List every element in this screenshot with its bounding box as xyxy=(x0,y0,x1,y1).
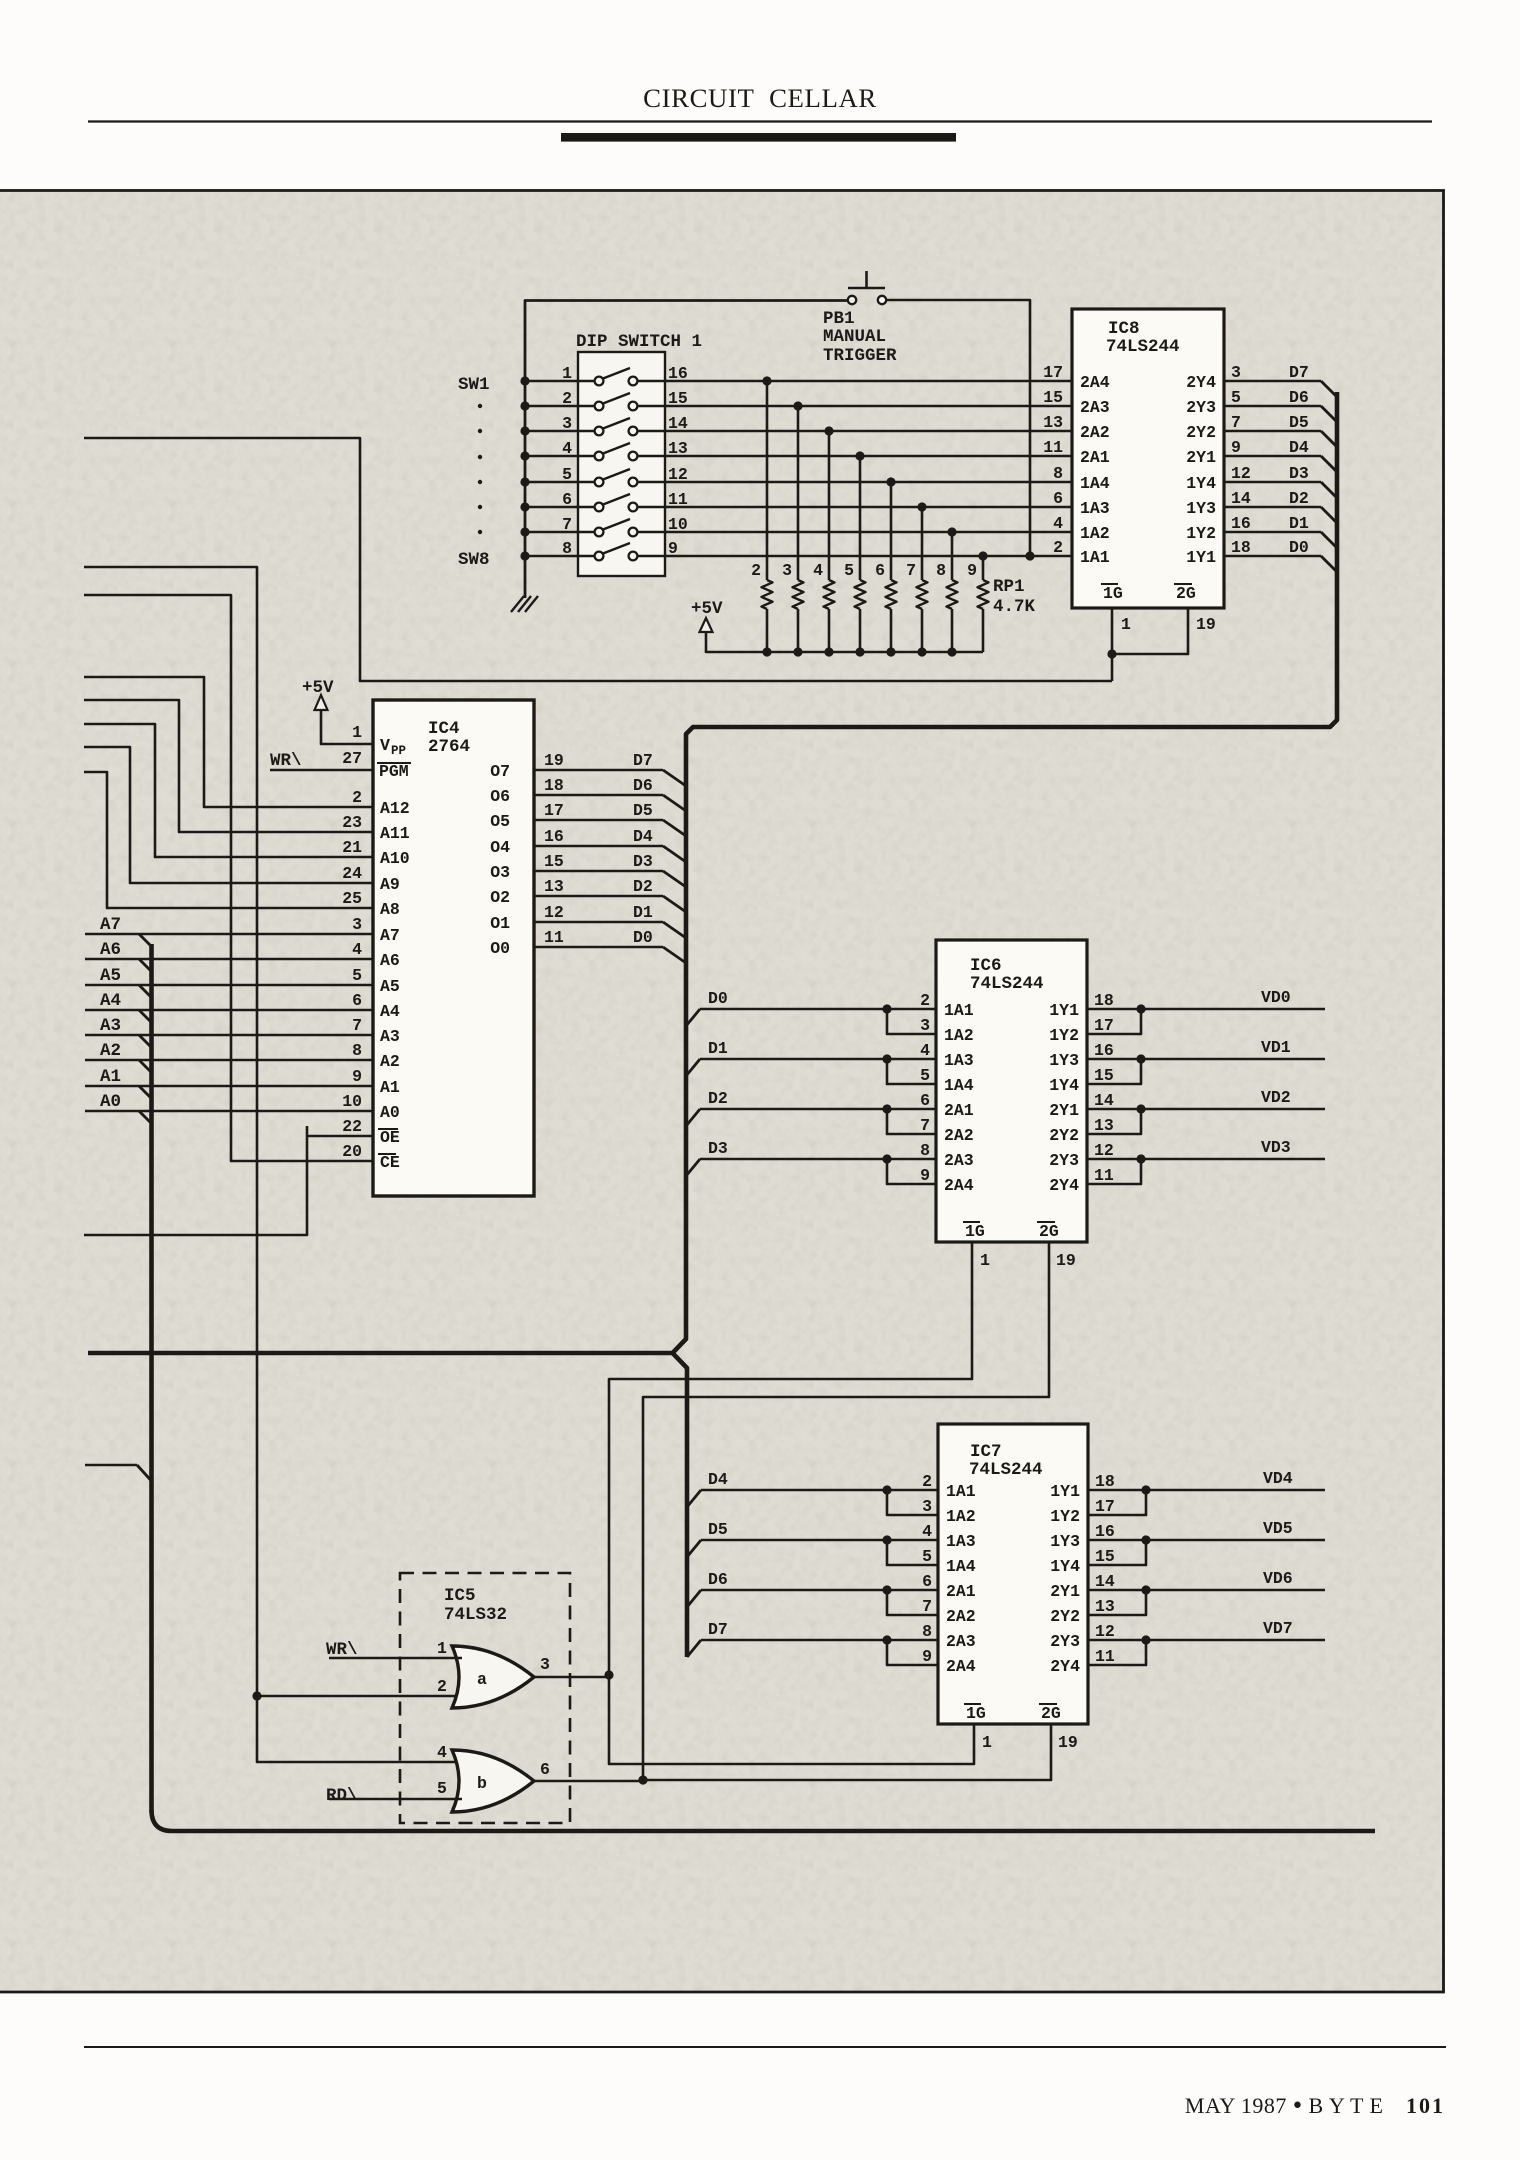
svg-text:VD5: VD5 xyxy=(1263,1519,1293,1538)
svg-text:4: 4 xyxy=(922,1522,932,1541)
label WR\ (IC5a input) xyxy=(326,1640,358,1660)
svg-text:9: 9 xyxy=(967,561,977,580)
svg-text:8: 8 xyxy=(922,1622,932,1641)
IC4 pin 24 number xyxy=(342,864,362,883)
svg-text:10: 10 xyxy=(668,515,688,534)
svg-text:1G: 1G xyxy=(966,1704,986,1723)
svg-text:PP: PP xyxy=(391,744,406,758)
svg-text:6: 6 xyxy=(352,991,362,1010)
svg-text:9: 9 xyxy=(1231,438,1241,457)
svg-text:7: 7 xyxy=(906,561,916,580)
svg-text:11: 11 xyxy=(1095,1647,1115,1666)
IC6 pin 12 label (2Y3) xyxy=(1049,1141,1114,1170)
RP1 pin number 4 xyxy=(813,561,823,580)
svg-text:17: 17 xyxy=(1094,1016,1114,1035)
IC6 pin 17 label (1Y2) xyxy=(1049,1016,1114,1045)
IC8 1G 2G labels xyxy=(1101,584,1196,603)
svg-text:2G: 2G xyxy=(1039,1222,1059,1241)
wire IC5a output xyxy=(534,1676,609,1679)
wire A8 from left edge xyxy=(84,772,373,908)
wire CE route (left edge down to pin 20) xyxy=(84,595,373,1161)
label D2 (IC6 input) xyxy=(708,1089,728,1108)
resistor RP1 pin 6 xyxy=(886,477,897,652)
IC7 pin 15 label (1Y4) xyxy=(1050,1547,1115,1576)
power +5V (RP1) xyxy=(691,599,723,653)
IC4 A6 label xyxy=(380,951,400,970)
svg-text:7: 7 xyxy=(1231,413,1241,432)
switch SW7 (row wire, contacts, arm) xyxy=(520,519,1072,537)
svg-text:O2: O2 xyxy=(490,888,510,907)
IC8 pin 12 (1Y4) and wire to D bus xyxy=(1186,464,1337,498)
svg-text:2Y3: 2Y3 xyxy=(1050,1632,1080,1651)
svg-text:VD0: VD0 xyxy=(1261,988,1291,1007)
label D0 (IC4 output) xyxy=(633,928,653,947)
svg-text:A1: A1 xyxy=(100,1067,121,1087)
label VD7 xyxy=(1263,1619,1293,1638)
svg-text:2A2: 2A2 xyxy=(944,1126,974,1145)
svg-text:13: 13 xyxy=(1043,413,1063,432)
svg-text:VD4: VD4 xyxy=(1263,1469,1293,1488)
wire VD1 from IC6 xyxy=(1087,1054,1325,1084)
svg-text:D7: D7 xyxy=(708,1620,728,1639)
DIP pin 16 (right) xyxy=(668,364,688,383)
wire A12 from left edge xyxy=(84,677,373,807)
svg-text:WR\: WR\ xyxy=(270,751,302,771)
svg-text:IC5: IC5 xyxy=(444,1586,476,1606)
resistor RP1 pin 7 xyxy=(917,502,928,652)
svg-text:2A4: 2A4 xyxy=(946,1657,976,1676)
IC8 pin 4 label (1A2) xyxy=(1053,514,1110,543)
svg-text:1Y4: 1Y4 xyxy=(1186,474,1216,493)
svg-text:2Y2: 2Y2 xyxy=(1050,1607,1080,1626)
IC7 pin 9 label (2A4) xyxy=(922,1647,976,1676)
svg-text:A5: A5 xyxy=(380,977,400,996)
wire D5 branch to IC7 xyxy=(687,1535,938,1565)
svg-text:CIRCUIT CELLAR: CIRCUIT CELLAR xyxy=(643,83,877,113)
svg-text:13: 13 xyxy=(1095,1597,1115,1616)
svg-text:16: 16 xyxy=(1231,514,1251,533)
svg-text:4: 4 xyxy=(437,1743,447,1762)
svg-text:A2: A2 xyxy=(380,1052,400,1071)
svg-text:11: 11 xyxy=(1094,1166,1114,1185)
label PB1 MANUAL TRIGGER xyxy=(823,309,897,366)
power +5V (IC4 Vpp) xyxy=(302,678,373,744)
svg-text:2Y3: 2Y3 xyxy=(1186,398,1216,417)
svg-text:1Y4: 1Y4 xyxy=(1049,1076,1079,1095)
IC4 pin 11 (O0) output wire xyxy=(490,928,686,963)
svg-text:1Y1: 1Y1 xyxy=(1049,1001,1079,1020)
RP1 pin number 3 xyxy=(782,561,792,580)
IC4 pin 23 number xyxy=(342,813,362,832)
IC8 pin 7 (2Y2) and wire to D bus xyxy=(1186,413,1337,447)
svg-text:8: 8 xyxy=(562,539,572,558)
svg-text:1: 1 xyxy=(980,1251,990,1270)
svg-text:1A1: 1A1 xyxy=(1080,548,1110,567)
IC7 pin 17 label (1Y2) xyxy=(1050,1497,1115,1526)
svg-text:V: V xyxy=(380,736,390,755)
svg-text:D3: D3 xyxy=(633,852,653,871)
IC7 pin 3 label (1A2) xyxy=(922,1497,976,1526)
svg-text:12: 12 xyxy=(1095,1622,1115,1641)
wire D7 branch to IC7 xyxy=(687,1635,938,1665)
svg-text:TRIGGER: TRIGGER xyxy=(823,346,897,366)
svg-text:3: 3 xyxy=(352,915,362,934)
svg-text:2A2: 2A2 xyxy=(946,1607,976,1626)
IC8 pin 17 label (2A4) xyxy=(1043,363,1110,392)
switch SW5 (row wire, contacts, arm) xyxy=(520,469,1072,487)
switch SW6 (row wire, contacts, arm) xyxy=(520,494,1072,512)
svg-text:O5: O5 xyxy=(490,812,510,831)
svg-text:DIP SWITCH 1: DIP SWITCH 1 xyxy=(576,332,702,352)
label D7 (IC7 input) xyxy=(708,1620,728,1639)
switch SW2 (row wire, contacts, arm) xyxy=(520,393,1072,411)
wire VD7 from IC7 xyxy=(1088,1635,1325,1665)
svg-text:19: 19 xyxy=(1056,1251,1076,1270)
IC4 pin 7 number xyxy=(352,1016,362,1035)
svg-text:3: 3 xyxy=(540,1655,550,1674)
label IC5 74LS32 xyxy=(444,1586,507,1625)
svg-text:2Y4: 2Y4 xyxy=(1049,1176,1079,1195)
svg-text:17: 17 xyxy=(1095,1497,1115,1516)
label D1 (IC6 input) xyxy=(708,1039,728,1058)
schematic panel border xyxy=(0,191,1444,1993)
IC4 pin 18 (O6) output wire xyxy=(490,776,686,811)
svg-text:17: 17 xyxy=(544,801,564,820)
svg-text:3: 3 xyxy=(782,561,792,580)
svg-text:D1: D1 xyxy=(1289,514,1309,533)
svg-text:VD1: VD1 xyxy=(1261,1038,1291,1057)
IC7 pin 4 label (1A3) xyxy=(922,1522,976,1551)
svg-text:O3: O3 xyxy=(490,863,510,882)
footer rule xyxy=(84,2046,1446,2048)
IC4 pin 5 number xyxy=(352,966,362,985)
svg-text:14: 14 xyxy=(1095,1572,1115,1591)
svg-text:7: 7 xyxy=(562,515,572,534)
wire A0 from left edge to IC4 xyxy=(85,1092,373,1124)
label D4 (IC4 output) xyxy=(633,827,653,846)
IC6 pin 13 label (2Y2) xyxy=(1049,1116,1114,1145)
resistor RP1 pin 8 xyxy=(947,527,958,652)
resistor RP1 pin 2 xyxy=(762,376,773,652)
wire VD6 from IC7 xyxy=(1088,1585,1325,1615)
IC6 pin 4 label (1A3) xyxy=(920,1041,974,1070)
IC7 pin 18 label (1Y1) xyxy=(1050,1472,1115,1501)
svg-text:A6: A6 xyxy=(380,951,400,970)
wire A5 from left edge to IC4 xyxy=(85,966,373,998)
svg-text:1Y2: 1Y2 xyxy=(1050,1507,1080,1526)
switch SW1 (row wire, contacts, arm) xyxy=(520,368,1072,386)
IC4 pin 19 (O7) output wire xyxy=(490,751,686,786)
wire A10 from left edge xyxy=(84,724,373,857)
svg-text:21: 21 xyxy=(342,838,362,857)
svg-text:D2: D2 xyxy=(708,1089,728,1108)
svg-text:2Y3: 2Y3 xyxy=(1049,1151,1079,1170)
svg-text:D7: D7 xyxy=(1289,363,1309,382)
wire IC7 1G to OR-a output xyxy=(604,1670,974,1764)
DIP pin 15 (right) xyxy=(668,389,688,408)
IC4 pin 27 number xyxy=(342,749,362,768)
svg-text:1Y4: 1Y4 xyxy=(1050,1557,1080,1576)
svg-text:16: 16 xyxy=(544,827,564,846)
svg-text:74LS244: 74LS244 xyxy=(969,1460,1043,1480)
svg-text:2A4: 2A4 xyxy=(1080,373,1110,392)
wire PB1 left to SW bus xyxy=(850,300,854,302)
IC4 pin 22 number xyxy=(342,1117,362,1136)
IC8 pin 6 label (1A3) xyxy=(1053,489,1110,518)
label D6 (IC7 input) xyxy=(708,1570,728,1589)
label D2 (IC4 output) xyxy=(633,877,653,896)
label D1 (IC8 output) xyxy=(1289,514,1309,533)
wire D6 branch to IC7 xyxy=(687,1585,938,1615)
label D5 (IC4 output) xyxy=(633,801,653,820)
DIP pin 4 (left) xyxy=(562,439,572,458)
label IC4 2764 xyxy=(428,719,470,757)
svg-text:D5: D5 xyxy=(708,1520,728,1539)
label D7 (IC8 output) xyxy=(1289,363,1309,382)
switch SW4 (row wire, contacts, arm) xyxy=(520,443,1072,461)
IC8 pin 13 label (2A2) xyxy=(1043,413,1110,442)
label WR\ (PGM net) xyxy=(270,751,302,771)
IC8 pin 2 label (1A1) xyxy=(1053,538,1110,567)
svg-text:O1: O1 xyxy=(490,914,510,933)
svg-text:15: 15 xyxy=(1095,1547,1115,1566)
IC6 pin 3 label (1A2) xyxy=(920,1016,974,1045)
label D7 (IC4 output) xyxy=(633,751,653,770)
svg-text:5: 5 xyxy=(922,1547,932,1566)
svg-text:1Y1: 1Y1 xyxy=(1186,548,1216,567)
wire VD3 from IC6 xyxy=(1087,1154,1325,1184)
IC4 A1 label xyxy=(380,1078,400,1097)
IC6 pin 2 label (1A1) xyxy=(920,991,974,1020)
svg-text:D4: D4 xyxy=(708,1470,728,1489)
IC6 pin 16 label (1Y3) xyxy=(1049,1041,1114,1070)
IC8 pin 14 (1Y3) and wire to D bus xyxy=(1186,489,1337,523)
svg-text:O6: O6 xyxy=(490,787,510,806)
wire A7 from left edge to IC4 xyxy=(85,915,373,947)
svg-text:A0: A0 xyxy=(380,1103,400,1122)
svg-text:18: 18 xyxy=(1094,991,1114,1010)
svg-text:23: 23 xyxy=(342,813,362,832)
svg-text:MANUAL: MANUAL xyxy=(823,327,886,347)
svg-text:D7: D7 xyxy=(633,751,653,770)
wire IC5b output xyxy=(534,1780,643,1783)
IC4 pin 10 number xyxy=(342,1092,362,1111)
label D0 (IC6 input) xyxy=(708,989,728,1008)
svg-text:7: 7 xyxy=(352,1016,362,1035)
svg-text:O0: O0 xyxy=(490,939,510,958)
svg-text:D2: D2 xyxy=(1289,489,1309,508)
DIP pin 11 (right) xyxy=(668,490,688,509)
svg-text:6: 6 xyxy=(562,490,572,509)
svg-text:2: 2 xyxy=(562,389,572,408)
svg-text:9: 9 xyxy=(668,539,678,558)
label IC6 74LS244 xyxy=(970,956,1044,994)
svg-text:A9: A9 xyxy=(380,875,400,894)
svg-text:2Y1: 2Y1 xyxy=(1049,1101,1079,1120)
svg-text:SW8: SW8 xyxy=(458,550,490,570)
svg-text:6: 6 xyxy=(540,1760,550,1779)
svg-text:5: 5 xyxy=(562,465,572,484)
IC4 pin 12 (O1) output wire xyxy=(490,903,686,938)
svg-text:2Y2: 2Y2 xyxy=(1186,423,1216,442)
svg-text:PGM: PGM xyxy=(379,762,409,781)
svg-text:D4: D4 xyxy=(633,827,653,846)
wire OE route (left edge up to pin 22) xyxy=(84,1126,373,1235)
IC4 A5 label xyxy=(380,977,400,996)
svg-text:18: 18 xyxy=(1231,538,1251,557)
IC4 A9 label xyxy=(380,875,400,894)
svg-text:2A1: 2A1 xyxy=(1080,448,1110,467)
svg-text:19: 19 xyxy=(1196,615,1216,634)
label D3 (IC4 output) xyxy=(633,852,653,871)
IC4 pin 3 number xyxy=(352,915,362,934)
IC8 pin 3 (2Y4) and wire to D bus xyxy=(1186,363,1337,397)
svg-text:A0: A0 xyxy=(100,1092,121,1112)
IC8 pin 8 label (1A4) xyxy=(1053,464,1110,493)
IC8 74LS244 box xyxy=(1072,309,1224,608)
svg-text:11: 11 xyxy=(1043,438,1063,457)
wire A1 from left edge to IC4 xyxy=(85,1067,373,1099)
wire VD0 from IC6 xyxy=(1087,1004,1325,1034)
IC5 74LS32 dashed box xyxy=(400,1573,570,1823)
label D4 (IC7 input) xyxy=(708,1470,728,1489)
svg-text:16: 16 xyxy=(668,364,688,383)
IC7 pin 5 label (1A4) xyxy=(922,1547,976,1576)
svg-text:D5: D5 xyxy=(1289,413,1309,432)
RP1 pin number 9 xyxy=(967,561,977,580)
svg-text:3: 3 xyxy=(922,1497,932,1516)
label D3 (IC6 input) xyxy=(708,1139,728,1158)
svg-text:4: 4 xyxy=(352,940,362,959)
svg-text:7: 7 xyxy=(920,1116,930,1135)
label RD\ (IC5b input) xyxy=(326,1786,358,1806)
resistor RP1 pin 9 xyxy=(978,551,989,652)
svg-text:2: 2 xyxy=(1053,538,1063,557)
svg-text:2A3: 2A3 xyxy=(944,1151,974,1170)
label gate a xyxy=(477,1670,487,1689)
svg-text:2A1: 2A1 xyxy=(944,1101,974,1120)
IC7 pin 12 label (2Y3) xyxy=(1050,1622,1115,1651)
svg-text:25: 25 xyxy=(342,889,362,908)
DIP pin 5 (left) xyxy=(562,465,572,484)
wire A11 from left edge xyxy=(84,700,373,832)
svg-text:VD7: VD7 xyxy=(1263,1619,1293,1638)
or-gate IC5b xyxy=(452,1750,534,1812)
IC6 pin 14 label (2Y1) xyxy=(1049,1091,1114,1120)
svg-text:6: 6 xyxy=(920,1091,930,1110)
wire D3 branch to IC6 xyxy=(686,1154,936,1184)
IC4 CE label xyxy=(378,1153,400,1172)
wire IC8 enable from left edge xyxy=(84,438,1112,681)
IC4 PGM label xyxy=(377,762,411,781)
IC6 1G 2G labels xyxy=(963,1222,1059,1241)
svg-text:2A2: 2A2 xyxy=(1080,423,1110,442)
svg-text:MAY 1987 ● B Y T E 101: MAY 1987 ● B Y T E 101 xyxy=(1185,2093,1445,2118)
label D1 (IC4 output) xyxy=(633,903,653,922)
svg-text:10: 10 xyxy=(342,1092,362,1111)
svg-text:1A2: 1A2 xyxy=(1080,524,1110,543)
svg-text:1A1: 1A1 xyxy=(946,1482,976,1501)
ground xyxy=(511,596,538,612)
IC4 pin 9 number xyxy=(352,1067,362,1086)
svg-text:1G: 1G xyxy=(1103,584,1123,603)
svg-text:18: 18 xyxy=(544,776,564,795)
svg-text:6: 6 xyxy=(875,561,885,580)
label D5 (IC7 input) xyxy=(708,1520,728,1539)
wire VD4 from IC7 xyxy=(1088,1485,1325,1515)
wire RD to IC5b pin 5 xyxy=(329,1798,462,1801)
svg-text:2: 2 xyxy=(352,788,362,807)
label SW8 xyxy=(458,550,490,570)
label SW1 xyxy=(458,375,490,395)
svg-text:a: a xyxy=(477,1670,487,1689)
wire PB1 right to SW8 line xyxy=(886,300,1035,561)
IC6 74LS244 box xyxy=(936,940,1087,1242)
svg-text:RD\: RD\ xyxy=(326,1786,358,1806)
DIP pin 3 (left) xyxy=(562,414,572,433)
DIP pin 10 (right) xyxy=(668,515,688,534)
wire A9 from left edge xyxy=(84,747,373,883)
svg-text:27: 27 xyxy=(342,749,362,768)
svg-text:A1: A1 xyxy=(380,1078,400,1097)
svg-text:2: 2 xyxy=(437,1677,447,1696)
svg-text:20: 20 xyxy=(342,1142,362,1161)
svg-text:17: 17 xyxy=(1043,363,1063,382)
DIP pin 9 (right) xyxy=(668,539,678,558)
svg-text:5: 5 xyxy=(920,1066,930,1085)
svg-text:A5: A5 xyxy=(100,966,121,986)
svg-text:1: 1 xyxy=(562,364,572,383)
IC4 A2 label xyxy=(380,1052,400,1071)
svg-text:12: 12 xyxy=(544,903,564,922)
IC8 pin 18 (1Y1) and wire to D bus xyxy=(1186,538,1337,572)
DIP pin 14 (right) xyxy=(668,414,688,433)
label gate b xyxy=(477,1774,487,1793)
RP1 pin number 6 xyxy=(875,561,885,580)
IC4 pin 6 number xyxy=(352,991,362,1010)
svg-text:24: 24 xyxy=(342,864,362,883)
svg-text:A7: A7 xyxy=(100,915,121,935)
svg-text:RP1: RP1 xyxy=(993,577,1025,597)
IC6 pin 18 label (1Y1) xyxy=(1049,991,1114,1020)
svg-text:D6: D6 xyxy=(633,776,653,795)
svg-text:74LS32: 74LS32 xyxy=(444,1605,507,1625)
svg-text:2G: 2G xyxy=(1041,1704,1061,1723)
svg-text:D1: D1 xyxy=(708,1039,728,1058)
svg-text:D6: D6 xyxy=(1289,388,1309,407)
svg-text:4: 4 xyxy=(1053,514,1063,533)
pushbutton PB1 xyxy=(848,271,886,304)
bus D0-D7 (IC8 side down + across + down past IC6 to IC7 taps) xyxy=(88,392,1337,1657)
dots between SW1 and SW8 xyxy=(478,404,482,534)
header thin rule xyxy=(88,120,1432,122)
svg-text:2A1: 2A1 xyxy=(946,1582,976,1601)
svg-text:A4: A4 xyxy=(100,991,121,1011)
svg-text:A6: A6 xyxy=(100,940,121,960)
svg-text:7: 7 xyxy=(922,1597,932,1616)
wire WR to IC5a pin 1 xyxy=(329,1657,462,1660)
IC4 pin 15 (O3) output wire xyxy=(490,852,686,887)
IC7 pin 6 label (2A1) xyxy=(922,1572,976,1601)
svg-text:A10: A10 xyxy=(380,849,410,868)
svg-text:15: 15 xyxy=(668,389,688,408)
svg-text:1: 1 xyxy=(437,1639,447,1658)
svg-text:D2: D2 xyxy=(633,877,653,896)
svg-text:8: 8 xyxy=(1053,464,1063,483)
svg-text:1A4: 1A4 xyxy=(1080,474,1110,493)
svg-text:13: 13 xyxy=(544,877,564,896)
resistor RP1 pin 5 xyxy=(855,451,866,652)
